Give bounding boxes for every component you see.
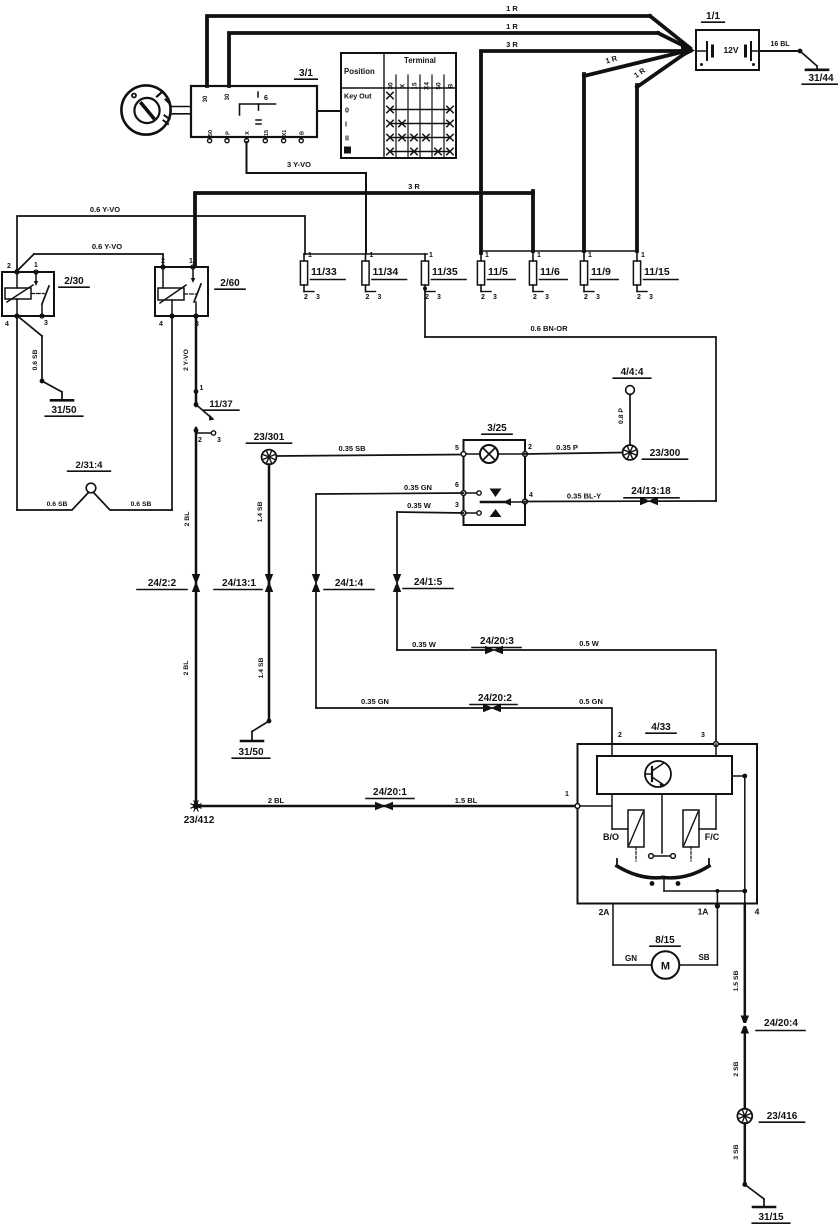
- svg-text:11/6: 11/6: [540, 266, 560, 278]
- svg-text:4: 4: [755, 907, 760, 917]
- svg-text:6: 6: [264, 95, 268, 102]
- svg-text:Key Out: Key Out: [344, 92, 372, 101]
- svg-text:II: II: [345, 134, 349, 143]
- svg-text:0.6 SB: 0.6 SB: [47, 501, 68, 508]
- svg-text:SB: SB: [698, 953, 709, 962]
- svg-text:Position: Position: [344, 67, 375, 76]
- svg-text:11/37: 11/37: [209, 399, 232, 410]
- svg-text:3: 3: [455, 502, 459, 509]
- svg-text:3: 3: [493, 294, 497, 301]
- svg-text:1: 1: [200, 385, 204, 392]
- svg-text:X: X: [245, 131, 251, 135]
- svg-text:0.35 GN: 0.35 GN: [361, 697, 389, 706]
- svg-text:2 BL: 2 BL: [183, 661, 190, 676]
- svg-text:3: 3: [596, 294, 600, 301]
- svg-text:2/30: 2/30: [64, 276, 84, 287]
- svg-text:0.35 BL-Y: 0.35 BL-Y: [567, 492, 601, 501]
- svg-text:2 BL: 2 BL: [268, 796, 285, 805]
- svg-text:12V: 12V: [723, 45, 738, 55]
- svg-text:11/9: 11/9: [591, 266, 611, 278]
- svg-text:24/20:2: 24/20:2: [478, 693, 512, 704]
- svg-text:2: 2: [304, 294, 308, 301]
- svg-text:2: 2: [637, 294, 641, 301]
- svg-text:1A: 1A: [698, 907, 709, 917]
- svg-text:31/50: 31/50: [51, 405, 76, 416]
- svg-text:31/15: 31/15: [758, 1212, 783, 1223]
- svg-text:1: 1: [34, 262, 38, 269]
- svg-text:P: P: [226, 131, 232, 135]
- svg-text:3: 3: [437, 294, 441, 301]
- svg-text:3: 3: [217, 437, 221, 444]
- svg-text:30: 30: [203, 95, 209, 102]
- svg-text:24/20:3: 24/20:3: [480, 636, 514, 647]
- svg-text:0.5 W: 0.5 W: [579, 639, 600, 648]
- svg-text:1: 1: [308, 252, 312, 259]
- svg-text:I: I: [345, 120, 347, 129]
- svg-text:3: 3: [701, 732, 705, 739]
- svg-text:2 SB: 2 SB: [733, 1061, 740, 1076]
- svg-text:0.6 SB: 0.6 SB: [131, 501, 152, 508]
- svg-text:23/301: 23/301: [254, 432, 285, 443]
- svg-text:1: 1: [370, 252, 374, 259]
- svg-text:GN: GN: [625, 954, 637, 963]
- svg-text:1: 1: [429, 252, 433, 259]
- svg-text:1 R: 1 R: [506, 4, 518, 13]
- svg-text:2: 2: [161, 258, 165, 265]
- svg-text:0.8 P: 0.8 P: [618, 408, 625, 424]
- svg-text:50: 50: [208, 130, 214, 136]
- svg-text:50: 50: [436, 82, 443, 90]
- svg-text:1 R: 1 R: [506, 22, 518, 31]
- svg-text:1: 1: [588, 252, 592, 259]
- svg-text:1.5 SB: 1.5 SB: [733, 971, 740, 992]
- svg-text:2: 2: [584, 294, 588, 301]
- svg-text:2 Y-VO: 2 Y-VO: [183, 349, 190, 371]
- svg-text:0.5 GN: 0.5 GN: [579, 697, 603, 706]
- svg-text:1: 1: [537, 252, 541, 259]
- svg-text:0.6 BN-OR: 0.6 BN-OR: [530, 324, 568, 333]
- svg-text:15: 15: [412, 82, 419, 90]
- svg-text:2: 2: [366, 294, 370, 301]
- svg-text:4: 4: [5, 321, 9, 328]
- svg-text:3: 3: [44, 320, 48, 327]
- svg-text:24/1:5: 24/1:5: [414, 577, 443, 588]
- svg-text:11/35: 11/35: [432, 266, 458, 278]
- svg-text:6: 6: [455, 482, 459, 489]
- svg-text:X4: X4: [424, 82, 431, 90]
- svg-text:0.6 SB: 0.6 SB: [32, 350, 39, 371]
- svg-text:4: 4: [159, 321, 163, 328]
- svg-text:B: B: [448, 83, 455, 88]
- svg-text:30: 30: [388, 82, 395, 90]
- svg-text:0.6 Y-VO: 0.6 Y-VO: [92, 242, 122, 251]
- svg-text:X1: X1: [282, 130, 288, 137]
- svg-text:F/C: F/C: [705, 832, 720, 842]
- svg-text:31/50: 31/50: [238, 747, 263, 758]
- svg-text:0.35 GN: 0.35 GN: [404, 483, 432, 492]
- svg-text:Terminal: Terminal: [404, 56, 436, 65]
- svg-text:23/300: 23/300: [650, 448, 681, 459]
- svg-text:2: 2: [618, 732, 622, 739]
- svg-text:0.35 SB: 0.35 SB: [338, 444, 366, 453]
- svg-text:3 SB: 3 SB: [733, 1144, 740, 1159]
- svg-text:24/20:4: 24/20:4: [764, 1018, 798, 1029]
- svg-text:2: 2: [198, 437, 202, 444]
- svg-text:2: 2: [533, 294, 537, 301]
- svg-text:B/O: B/O: [603, 832, 619, 842]
- svg-text:3 R: 3 R: [506, 40, 518, 49]
- svg-text:3: 3: [378, 294, 382, 301]
- svg-text:0.6 Y-VO: 0.6 Y-VO: [90, 205, 120, 214]
- svg-text:2: 2: [528, 444, 532, 451]
- svg-text:15: 15: [264, 130, 270, 136]
- svg-text:2/60: 2/60: [220, 278, 240, 289]
- svg-text:4: 4: [529, 492, 533, 499]
- svg-text:4/4:4: 4/4:4: [621, 367, 644, 378]
- svg-text:2: 2: [481, 294, 485, 301]
- svg-text:23/416: 23/416: [767, 1111, 798, 1122]
- svg-text:24/13:18: 24/13:18: [631, 486, 671, 497]
- svg-text:24/13:1: 24/13:1: [222, 578, 256, 589]
- svg-text:24/2:2: 24/2:2: [148, 578, 177, 589]
- svg-text:8/15: 8/15: [655, 935, 675, 946]
- svg-text:1.4 SB: 1.4 SB: [258, 658, 265, 679]
- svg-text:3: 3: [649, 294, 653, 301]
- svg-text:11/5: 11/5: [488, 266, 508, 278]
- svg-text:3 R: 3 R: [408, 182, 420, 191]
- svg-text:1/1: 1/1: [706, 11, 720, 22]
- svg-text:2A: 2A: [599, 907, 610, 917]
- svg-text:31/44: 31/44: [808, 73, 833, 84]
- svg-text:3/1: 3/1: [299, 68, 313, 79]
- svg-text:M: M: [661, 961, 670, 973]
- svg-text:23/412: 23/412: [184, 815, 215, 826]
- svg-text:0.35 W: 0.35 W: [412, 640, 437, 649]
- svg-text:0.35 P: 0.35 P: [556, 443, 578, 452]
- svg-text:1.5 BL: 1.5 BL: [455, 796, 478, 805]
- svg-text:2: 2: [7, 263, 11, 270]
- svg-text:B: B: [300, 131, 306, 135]
- svg-text:3 Y-VO: 3 Y-VO: [287, 160, 311, 169]
- svg-text:5: 5: [455, 445, 459, 452]
- svg-text:24/1:4: 24/1:4: [335, 578, 364, 589]
- svg-text:2/31:4: 2/31:4: [76, 460, 104, 471]
- svg-text:11/33: 11/33: [311, 266, 337, 278]
- svg-text:1: 1: [189, 258, 193, 265]
- svg-text:0.35 W: 0.35 W: [407, 501, 432, 510]
- svg-text:1: 1: [641, 252, 645, 259]
- svg-text:11/34: 11/34: [373, 266, 399, 278]
- svg-text:24/20:1: 24/20:1: [373, 787, 407, 798]
- svg-text:1: 1: [565, 791, 569, 798]
- svg-text:1: 1: [485, 252, 489, 259]
- svg-text:3: 3: [316, 294, 320, 301]
- svg-text:1.4 SB: 1.4 SB: [257, 502, 264, 523]
- svg-text:3: 3: [545, 294, 549, 301]
- svg-text:30: 30: [225, 93, 231, 100]
- svg-text:16 BL: 16 BL: [770, 41, 790, 48]
- svg-text:4/33: 4/33: [651, 722, 671, 733]
- svg-text:2 BL: 2 BL: [184, 512, 191, 527]
- svg-text:11/15: 11/15: [644, 266, 670, 278]
- svg-text:3/25: 3/25: [487, 423, 507, 434]
- svg-text:X: X: [400, 83, 407, 88]
- svg-text:0: 0: [345, 106, 349, 115]
